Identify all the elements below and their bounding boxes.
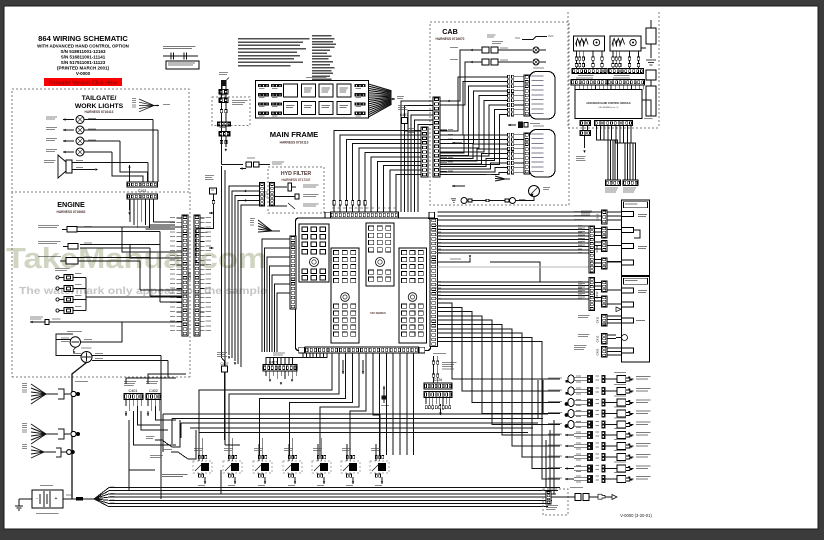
right joystick lower strip [571, 78, 608, 85]
fuse panel internal labels [286, 88, 348, 109]
fuel shutoff fuse row [30, 317, 182, 325]
cab section title [436, 27, 465, 41]
starter solenoid circle [56, 340, 168, 363]
connector C410 [589, 278, 599, 311]
wires left of ECU [262, 239, 290, 352]
engine harness branch fan 3 [22, 444, 56, 458]
hyd filter sensors [275, 183, 319, 209]
svg-text:ENGINE: ENGINE [57, 200, 85, 209]
svg-text:ADVANCED HAND CONTROL MODULE: ADVANCED HAND CONTROL MODULE [586, 102, 631, 105]
ECU top pin strip [325, 208, 435, 219]
gray spare wire [438, 266, 590, 268]
engine harness connector C408 right strip [194, 215, 200, 336]
right joystick pins down [575, 51, 603, 68]
C402 pin wires down [147, 400, 176, 421]
svg-text:V-0000 (3-20-01): V-0000 (3-20-01) [620, 513, 652, 518]
svg-text:C411: C411 [596, 316, 600, 323]
cab lamp riser wires [440, 41, 503, 105]
svg-text:HARNESS 6716413: HARNESS 6716413 [85, 110, 114, 114]
valve solenoid driver 5 [312, 438, 331, 486]
ECU right pin strip [430, 219, 438, 347]
to engine harness connector [195, 175, 217, 263]
alternator circle [56, 322, 122, 353]
cab left feed wires [447, 100, 465, 187]
fuse panel harness fan [369, 84, 405, 117]
watermark subtitle [19, 286, 267, 297]
serial number line 3 [61, 60, 106, 65]
sensor row 9 [548, 462, 650, 473]
svg-text:WITH ADVANCED HAND CONTROL OPT: WITH ADVANCED HAND CONTROL OPTION [37, 44, 129, 49]
left joystick box [610, 36, 641, 51]
tailgate harness number [85, 110, 114, 114]
connector C409 [589, 226, 599, 273]
connector C407 to main frame [398, 105, 421, 133]
svg-text:Printable Version Click Here: Printable Version Click Here [49, 80, 117, 86]
main frame section title [270, 130, 319, 145]
ac adapter dashed box [543, 489, 568, 515]
lower bus tiny labels [436, 281, 582, 299]
mid mesh connector risers [163, 380, 543, 452]
hyd filter connector C102 right strip [270, 183, 275, 207]
connector C426 strip upper [424, 378, 452, 389]
wires ECU bottom mesh descending [199, 353, 414, 455]
battery harness fan to main bus [94, 487, 115, 507]
wires below C426 [425, 398, 451, 416]
right panel rounded box [530, 68, 556, 120]
valve solenoid driver 4 [283, 438, 302, 486]
svg-text:CAB: CAB [442, 27, 458, 36]
C409 breakout strips [602, 227, 608, 269]
ECU to C432 wires [438, 212, 602, 220]
hand control harness dashed border [568, 12, 659, 128]
cab roof wire squiggle [515, 36, 553, 40]
fuse panel labels column 1 [238, 38, 309, 66]
svg-text:S/N 516811001-11141: S/N 516811001-11141 [61, 55, 106, 60]
wires cab bottom exit [516, 197, 535, 201]
fuel sender upper connector [219, 80, 228, 95]
tiny labels left of C432 C409 C410 [574, 211, 585, 297]
left stub wires into C408 [170, 217, 182, 331]
tailgate harness branch fan [132, 98, 170, 112]
hand control lower connector 1 [605, 180, 621, 193]
svg-text:WORK LIGHTS: WORK LIGHTS [75, 103, 124, 110]
left panel wire connector marks [508, 133, 514, 174]
capacitor filter assembly note [163, 46, 199, 69]
svg-text:HARNESS 6717247: HARNESS 6717247 [282, 178, 311, 182]
ECU relay block 1 [299, 224, 329, 282]
relay wire junction switches [146, 436, 188, 459]
cab strip wire bends into ECU top [334, 131, 421, 213]
wires above C426 [432, 353, 456, 383]
title 864 WIRING SCHEMATIC [38, 34, 128, 43]
cab section dashed border [430, 22, 569, 205]
cab dome light pair [451, 198, 526, 204]
engine section dashed border [12, 192, 190, 377]
right panel wire connector marks [508, 75, 514, 116]
C410 breakout strips [602, 281, 608, 307]
fuel shutoff hold wire [438, 255, 541, 282]
left panel pin strip [524, 133, 544, 174]
version footer text [620, 513, 652, 518]
tailgate connector label top [487, 35, 495, 38]
battery ground [15, 499, 32, 510]
watermark TakeManual.com [6, 243, 267, 275]
fuel sender lower connector [219, 126, 230, 165]
hyd filter feed wires [228, 186, 260, 367]
engine harness ring terminal 2 [58, 429, 80, 439]
svg-text:HARNESS 6716662: HARNESS 6716662 [57, 210, 86, 214]
ac adapter connector strip [546, 491, 551, 504]
svg-text:C401: C401 [128, 389, 137, 393]
coil spark component [219, 72, 229, 94]
module bottom left lower connector [580, 126, 591, 136]
sensor row 7 [548, 439, 650, 450]
wires C410 breakouts to module [595, 283, 622, 305]
connector C411 [578, 315, 607, 327]
cab strip B wire bends into ECU top [401, 101, 433, 212]
long mesh bus lines mid bottom [163, 414, 548, 432]
up arrow above C103 [128, 163, 148, 183]
sensor row 4 [548, 407, 650, 418]
svg-text:C407: C407 [400, 113, 409, 117]
serial number line 2 [61, 55, 106, 60]
left panel rounded box [530, 126, 556, 178]
advanced hand control module box [575, 90, 642, 119]
fuel sender symbol [218, 94, 248, 126]
engine section title [57, 200, 86, 214]
alternator charge wire row [222, 158, 285, 170]
svg-text:C403: C403 [596, 348, 600, 355]
connector C427 strip [263, 353, 297, 372]
harness fan left of ECU [250, 218, 280, 232]
C401 C402 feed wires from engine [126, 374, 186, 445]
cab connector strip A [421, 127, 428, 177]
wires below C103 into engine harness [128, 199, 175, 229]
left joystick lower strip [608, 78, 645, 85]
wires mesh horizontal returns [380, 419, 414, 455]
hyd filter connector C102 left strip [260, 183, 269, 207]
ECU left pin strip [290, 236, 296, 309]
ECU main module outline [296, 218, 431, 351]
starter battery cable [72, 363, 87, 500]
sensor row 1 [548, 372, 650, 383]
ECU bottom pin strip [299, 347, 425, 353]
sensor row 10 [548, 472, 650, 483]
coil feed wire to fuel sender chain [221, 94, 223, 96]
svg-text:HYD FILTER: HYD FILTER [281, 171, 311, 177]
connector C426 strip lower [424, 392, 452, 398]
right panel pin strip [524, 75, 544, 116]
cab wire nest to right panel [440, 77, 524, 165]
engine harness connector C408 left strip [182, 215, 192, 336]
printable version red banner [44, 78, 122, 86]
svg-text:(PRINTED MARCH 2001): (PRINTED MARCH 2001) [57, 66, 110, 71]
valve solenoid driver 3 [253, 438, 272, 486]
fuse panel labels column 2 [312, 35, 336, 80]
valve solenoid driver 7 [370, 438, 389, 486]
svg-text:HARNESS 6716113: HARNESS 6716113 [280, 141, 309, 145]
left joystick pins down [612, 51, 640, 68]
cab connector strip B [433, 97, 440, 177]
svg-text:V-0000: V-0000 [76, 71, 91, 76]
module wires to lower connectors group 2 [616, 126, 635, 181]
left joystick connector strip [609, 69, 644, 77]
engine oil pressure switch [38, 241, 160, 249]
trunk wires to bottom bus bends [221, 445, 240, 494]
version V-0000 line [76, 71, 91, 76]
tail light lamp 3 [46, 137, 120, 145]
ECU relay block 2 [331, 248, 359, 343]
bus riser wires right side [546, 420, 554, 494]
sensor row 8 [548, 450, 650, 461]
wires C432 to module [607, 212, 622, 220]
tail light lamp 2 [46, 126, 158, 134]
starter wires to trunk [161, 356, 168, 500]
sensor row 2 [548, 384, 650, 395]
fuse panel box [256, 77, 369, 118]
stub wires right of cab strips [440, 129, 453, 171]
battery [32, 485, 63, 514]
cab wire nest to left panel [440, 135, 524, 175]
wires C411 C412 C403 to module [607, 316, 622, 355]
svg-text:HARNESS 6716670: HARNESS 6716670 [436, 37, 465, 41]
hyd filter title [281, 171, 311, 182]
svg-text:TAILGATE/: TAILGATE/ [82, 95, 117, 102]
tail light lamp 1 [46, 116, 153, 124]
engine harness branch fan 2 [22, 423, 58, 444]
battery positive cable and splice [63, 495, 94, 501]
left module box [616, 277, 650, 363]
serial number line 1 [60, 49, 106, 54]
svg-text:C103: C103 [138, 189, 147, 193]
tailgate wiring to connector [112, 120, 158, 183]
connector C432 [581, 210, 607, 224]
hand control module bottom pin strip [595, 121, 633, 126]
strip to module wires [575, 85, 644, 90]
hand control module bottom left connector [580, 121, 591, 126]
connector C401 [124, 381, 143, 400]
ECU bottom strip end arrows [342, 360, 364, 374]
wiper motor circle [529, 186, 551, 197]
svg-text:C102: C102 [265, 190, 269, 197]
engine area interconnect wires [122, 227, 182, 302]
ECU to right modules wire bus upper [438, 226, 590, 253]
work light lamp 4 [46, 148, 112, 156]
right joystick box [574, 36, 605, 51]
sensor row 5 [548, 418, 650, 429]
C427 bottom pins and arrows [266, 371, 296, 385]
wires ECU bottom to C427 [266, 353, 327, 365]
connector C103 lower half [127, 194, 158, 199]
backup alarm inline component [508, 122, 540, 129]
glow plugs [55, 268, 182, 314]
hyd filter dashed box [268, 167, 324, 213]
fuel shutoff solenoid [38, 256, 150, 264]
right module box [622, 200, 650, 276]
ECU relay block 4 [399, 248, 427, 343]
cab dome lamp row 1 [450, 47, 546, 53]
engine harness branch fan 1 [22, 381, 88, 404]
up arrow wire component [381, 386, 389, 406]
connector C407 lower [217, 352, 229, 440]
module power wire with arrow [576, 136, 586, 162]
hand control lower connector 2 [623, 180, 638, 193]
ac adapter plug row [551, 487, 617, 501]
C401 pin wires down [125, 400, 168, 439]
fuel sender dashed box [212, 97, 250, 126]
hand control right edge components [644, 20, 656, 119]
valve solenoid driver 6 [341, 438, 360, 486]
sensor row 3 [548, 396, 650, 407]
ECU relay block 3 [366, 223, 394, 286]
stub wires right of C408 strips [200, 217, 211, 331]
coolant temp sender [38, 225, 182, 232]
backup alarm speaker [44, 155, 148, 178]
svg-text:C412: C412 [596, 335, 600, 342]
svg-text:C408: C408 [188, 272, 192, 280]
main frame bottom wire bus [109, 488, 560, 507]
svg-text:S/N 517511001-11123: S/N 517511001-11123 [61, 60, 106, 65]
connector C403 [574, 345, 607, 357]
wires module to right edge [641, 48, 651, 116]
svg-text:C407: C407 [221, 362, 229, 366]
connector C412 [578, 334, 607, 345]
cab dome lamp row 2 [450, 59, 546, 65]
svg-text:S/N 518911001-12163: S/N 518911001-12163 [60, 49, 106, 54]
svg-text:864 WIRING SCHEMATIC: 864 WIRING SCHEMATIC [38, 34, 128, 43]
upper bus tiny labels [436, 225, 582, 253]
svg-text:MAIN FRAME: MAIN FRAME [270, 130, 319, 139]
printed march 2001 line [57, 66, 110, 71]
svg-text:500 SERIES (ver. 2): 500 SERIES (ver. 2) [599, 106, 619, 109]
engine harness ring terminal 1 [58, 389, 80, 399]
relay area feed wires [129, 420, 196, 490]
svg-text:C402: C402 [149, 389, 158, 393]
valve solenoid driver 1 [193, 438, 212, 486]
tailgate section dashed border [12, 89, 189, 192]
engine harness ring terminal 3 [56, 448, 74, 457]
svg-text:+: + [55, 496, 58, 502]
connector C402 [146, 381, 161, 400]
valve solenoid driver 2 [223, 438, 242, 486]
ECU to right modules wire bus lower [438, 282, 590, 299]
subtitle with advanced hand control option [37, 44, 129, 49]
svg-text:C432: C432 [596, 213, 600, 220]
right joystick connector strip [572, 69, 607, 77]
connector C103 upper half [127, 182, 158, 193]
tailgate section title [75, 95, 124, 110]
cab flasher symbol [486, 174, 510, 181]
main trunk vertical wires [209, 166, 225, 445]
svg-text:500 SERIES: 500 SERIES [370, 311, 386, 315]
relay note text [162, 474, 188, 477]
ECU staircase wires to sensor rows [438, 303, 561, 479]
wires C409 breakouts to module [595, 229, 622, 267]
module wires to lower connectors group 1 [597, 126, 618, 181]
ECU series label [370, 311, 386, 315]
inline connector ticks on ECU top feeds [333, 201, 366, 206]
sensor row 6 [548, 428, 650, 439]
